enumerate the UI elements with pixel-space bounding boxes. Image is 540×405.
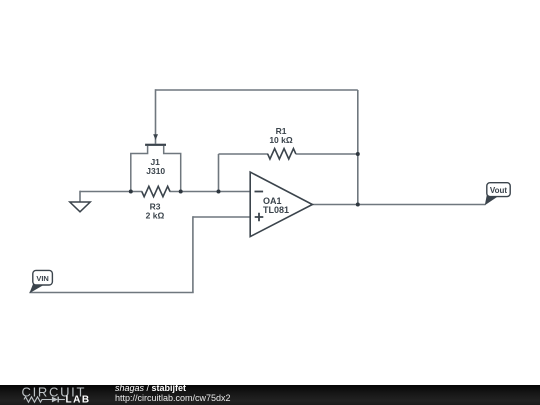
wire op-amp non-inverting input horizontal: [193, 216, 250, 218]
wire top horizontal gate-to-output feedback: [156, 89, 358, 91]
node junction inverting input / R1: [217, 190, 221, 194]
footer credits text: [115, 384, 231, 403]
wire R1 left lead: [219, 153, 269, 155]
node junction R1 right / feedback: [356, 152, 360, 156]
CircuitLab logo: [0, 385, 115, 405]
footer brand bar: [0, 385, 540, 405]
wire op-amp output to Vout: [312, 204, 485, 206]
wire R1 right lead: [296, 153, 358, 155]
wire R1 left vertical from inverting junction: [218, 154, 220, 192]
node junction J1 drain / R3 right: [179, 190, 183, 194]
node flag Vout: [485, 183, 510, 206]
wire VIN horizontal: [29, 292, 193, 294]
wire right vertical to output node: [357, 90, 359, 205]
node junction output / feedback: [356, 203, 360, 207]
svg-text:10 kΩ: 10 kΩ: [269, 135, 293, 145]
resistor R1: [268, 149, 296, 159]
transistor J1 JFET J310: [131, 134, 181, 191]
wire ground to R3 left lead: [80, 191, 142, 193]
svg-text:2 kΩ: 2 kΩ: [146, 210, 165, 220]
svg-text:LAB: LAB: [66, 395, 91, 405]
svg-text:Vout: Vout: [490, 186, 508, 195]
node flag VIN: [29, 270, 52, 293]
node junction J1 source / R3 left: [129, 190, 133, 194]
svg-text:J310: J310: [146, 166, 165, 176]
wire VIN vertical riser: [192, 216, 194, 292]
ground: [70, 202, 90, 212]
svg-text:VIN: VIN: [36, 274, 49, 283]
wire gate vertical drop: [155, 89, 157, 144]
wire ground stub vertical: [79, 191, 81, 202]
svg-text:TL081: TL081: [263, 205, 289, 215]
resistor R3: [142, 186, 170, 196]
wire R3 right lead to op-amp inverting input: [170, 191, 251, 193]
op-amp OA1 TL081: [250, 172, 312, 237]
